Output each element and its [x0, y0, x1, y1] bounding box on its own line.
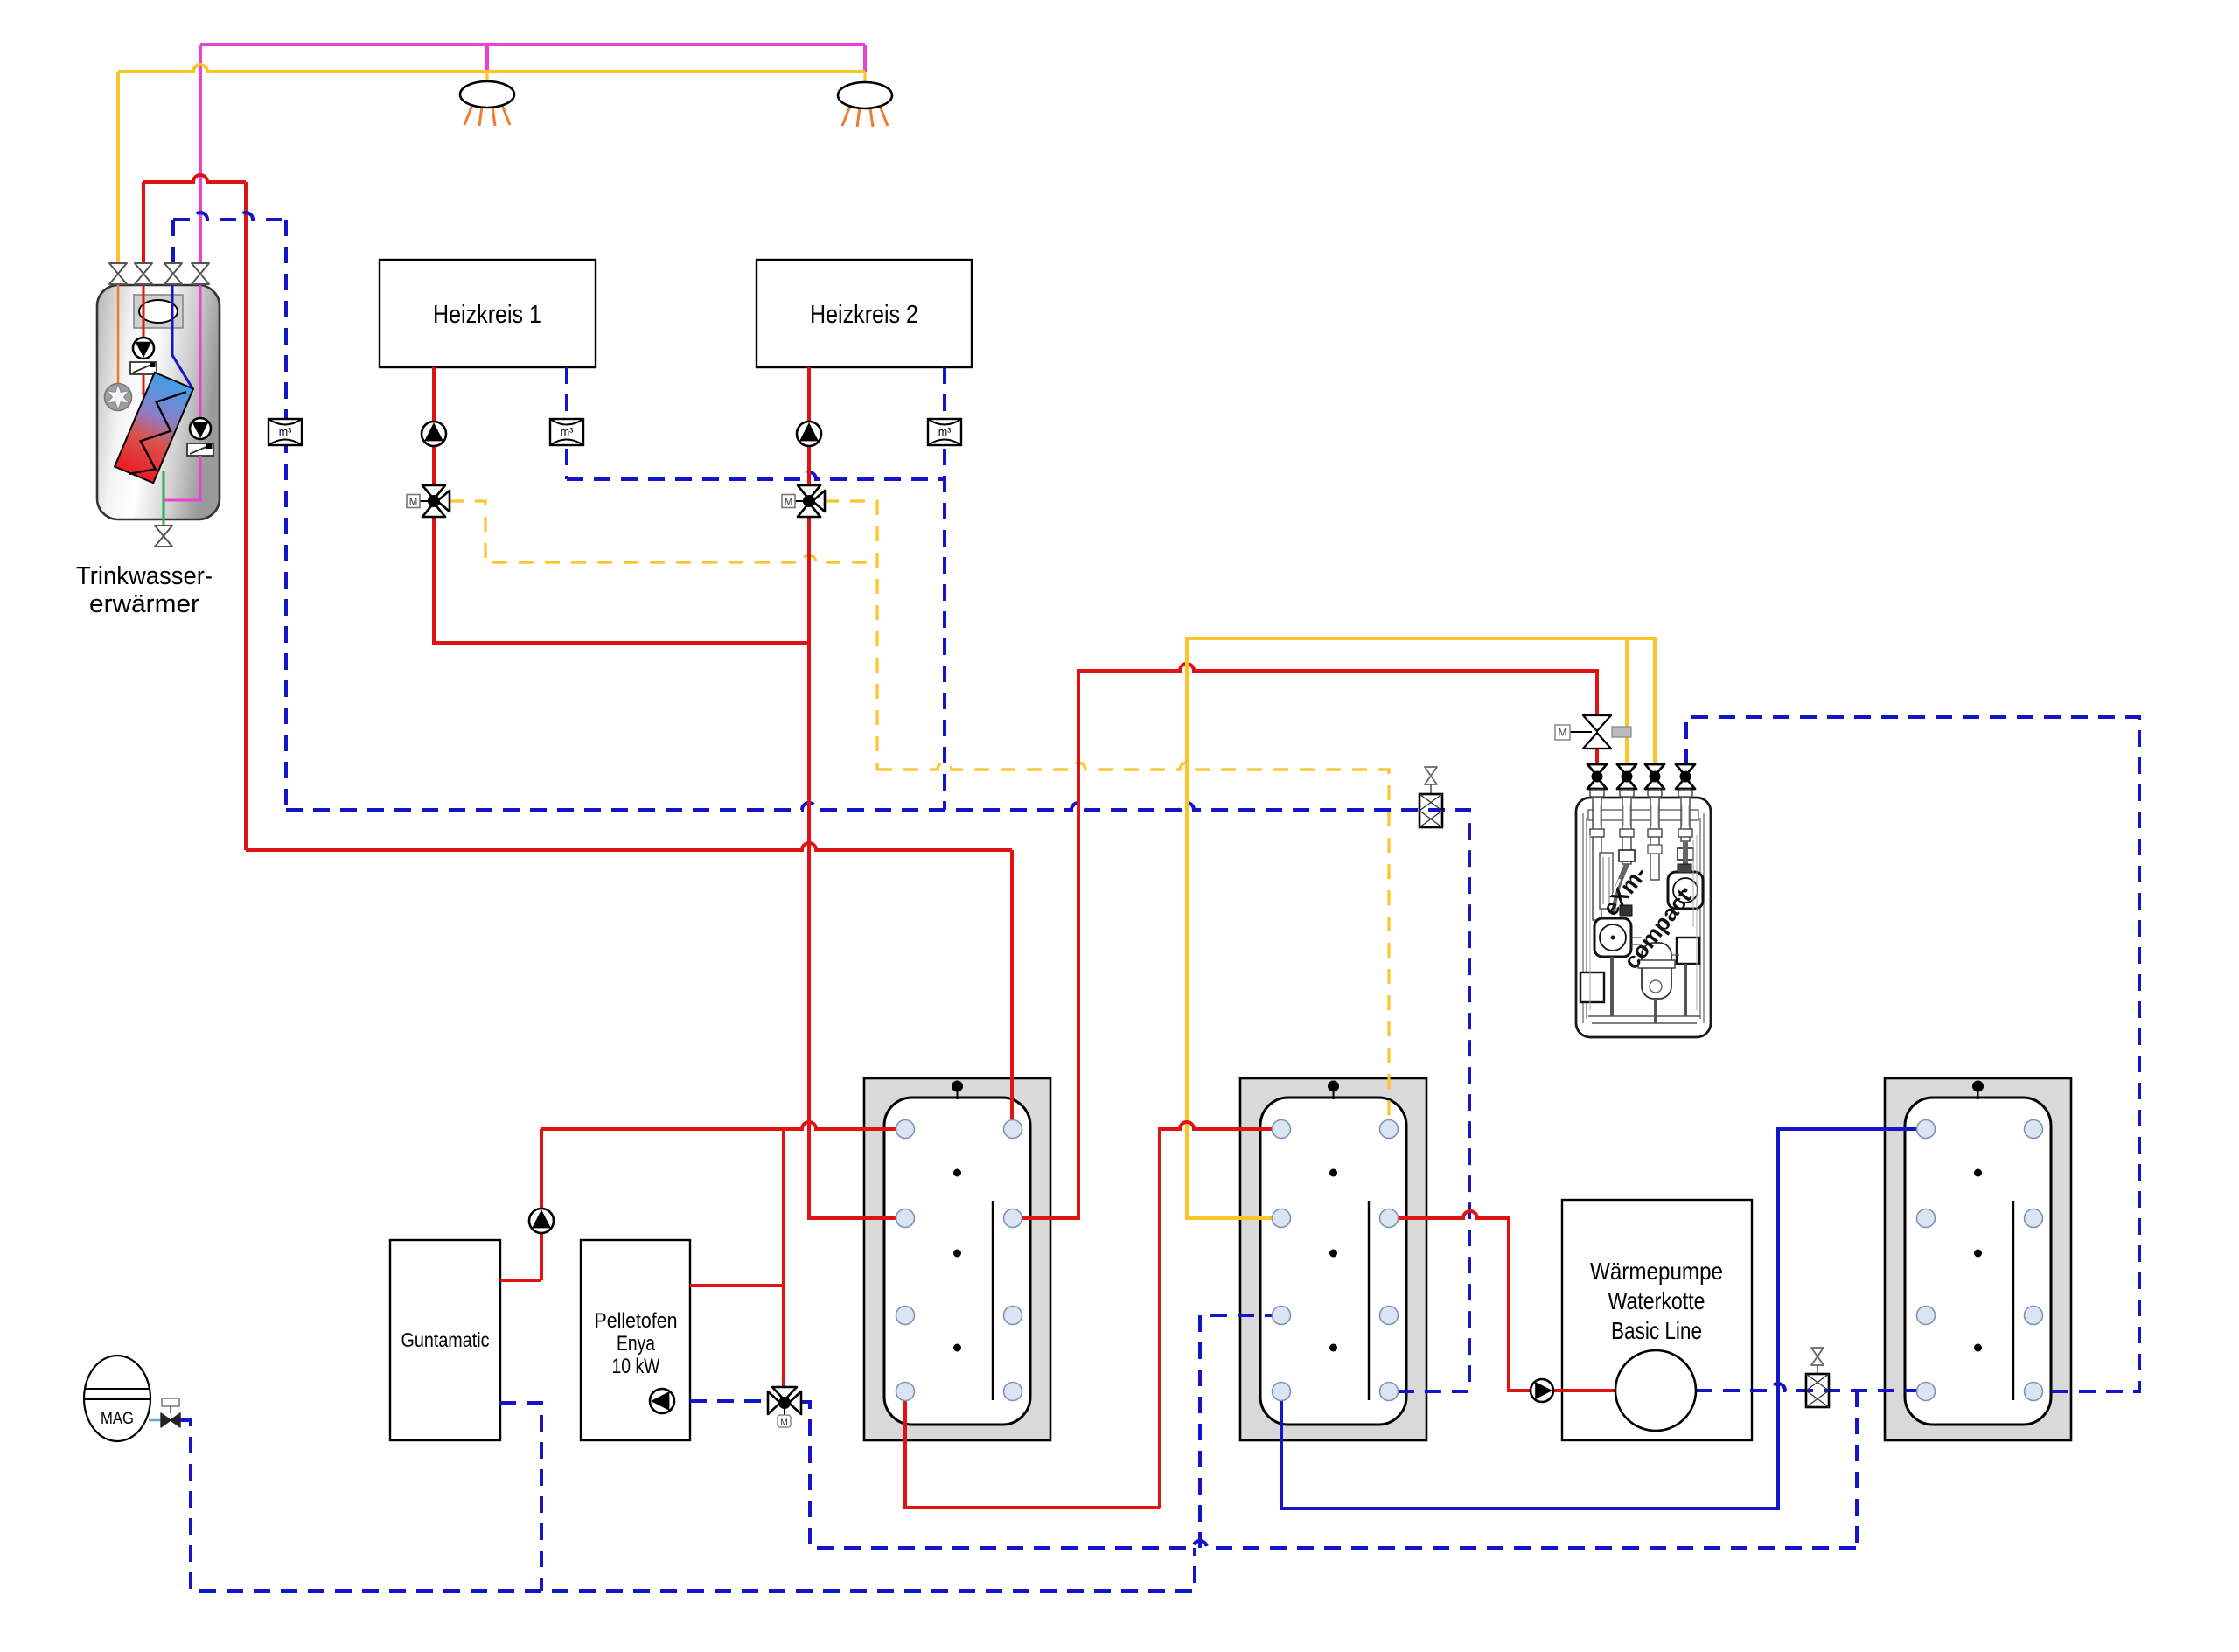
wire blue dashed exm return	[1686, 717, 2139, 1391]
TW green drain line	[163, 471, 165, 526]
MAG cap valve	[161, 1413, 180, 1427]
svg-text:erwärmer: erwärmer	[89, 590, 199, 618]
TW check valve 1	[130, 362, 157, 374]
svg-text:m³: m³	[561, 426, 574, 438]
mixing valve HK2	[798, 485, 825, 517]
eXm compact solar station	[1576, 798, 1711, 1037]
dirt filter 2	[1806, 1374, 1829, 1407]
wire red main supply vertical	[244, 182, 248, 850]
svg-text:m³: m³	[279, 426, 292, 438]
wire yellow drop to TW valve	[116, 72, 120, 263]
TW solar star symbol	[105, 384, 132, 411]
TW blue internal	[172, 282, 192, 388]
svg-text:Enya: Enya	[617, 1332, 656, 1356]
wire yellow dashed control header	[877, 763, 1389, 1129]
WP compressor circle	[1615, 1350, 1696, 1431]
Waermepumpe box	[1562, 1200, 1752, 1440]
TW top valve 1	[109, 263, 127, 284]
wire red TW drop to valve	[142, 182, 145, 263]
wire red HK1 supply	[434, 367, 809, 643]
Heizkreis 2 box	[757, 260, 972, 367]
vent valve filter1	[1425, 767, 1437, 784]
pump HK1	[422, 422, 446, 446]
wire red tank1 to solar	[1013, 664, 1597, 1218]
wire yellow solar branch valve2	[1625, 638, 1629, 766]
wire magenta drop lamp2	[863, 45, 867, 72]
wire blue dashed TW header	[173, 213, 286, 220]
svg-text:Wärmepumpe: Wärmepumpe	[1590, 1258, 1723, 1285]
wire red boiler riser	[540, 1129, 543, 1280]
wire red supply to tank1 horizontal	[246, 843, 1012, 850]
wire red pelletofen out	[690, 1284, 784, 1287]
exm isolation valve 2	[1617, 764, 1636, 789]
wire yellow stub lamp1	[485, 72, 488, 82]
wire blue solid tank2 to tank3	[1281, 1129, 1925, 1509]
MAG expansion vessel	[84, 1356, 150, 1441]
wire red pelletofen branch	[782, 1129, 785, 1386]
svg-text:Trinkwasser-: Trinkwasser-	[76, 562, 213, 590]
tank2 ports	[1273, 1120, 1291, 1139]
Guntamatic boiler box	[390, 1240, 500, 1440]
Heizkreis 1 box	[380, 260, 596, 367]
wire blue dashed WP out	[1696, 1384, 1925, 1391]
svg-text:10 kW: 10 kW	[612, 1355, 660, 1378]
TW top valve 2	[135, 263, 152, 284]
wire blue dashed HK1 return	[565, 367, 568, 479]
buffer tank 3 body	[1885, 1078, 2071, 1440]
TW top valve 4	[192, 263, 209, 284]
exm isolation valve 3	[1645, 764, 1664, 789]
TW top valve 3	[164, 263, 182, 284]
pump pelletofen	[650, 1389, 674, 1413]
wire yellow dashed HK2 control	[824, 501, 877, 770]
wire yellow header	[118, 65, 865, 72]
flow meter HK2	[928, 419, 961, 445]
wire red boiler header	[541, 1122, 905, 1129]
wire magenta header	[200, 43, 865, 46]
TW orange sensor line	[117, 282, 120, 386]
vent valve filter2	[1811, 1348, 1824, 1365]
TW magenta internal	[199, 282, 202, 418]
Trinkwasser tank body	[97, 285, 220, 519]
wire magenta drop lamp1	[485, 45, 489, 72]
flow meter TW return	[269, 419, 302, 445]
svg-text:M: M	[780, 1418, 788, 1428]
svg-text:M: M	[1559, 727, 1567, 739]
TW check valve 2	[187, 443, 213, 456]
heat exchanger coil	[114, 373, 192, 484]
collector lamp 1	[464, 105, 472, 125]
wire red TW header	[143, 175, 246, 182]
svg-text:M: M	[409, 498, 418, 508]
wire yellow stub lamp2	[863, 72, 866, 83]
TW magenta to bottom	[164, 456, 200, 500]
TW red to exchanger	[143, 374, 145, 395]
svg-text:MAG: MAG	[101, 1409, 134, 1428]
tank3 ports	[1917, 1120, 1936, 1139]
wire red drop to tank1 top-right port	[1010, 850, 1014, 1129]
wire blue dashed MAG line	[180, 1420, 1195, 1591]
wire magenta drop to TW tank	[199, 45, 202, 263]
MAG connection pipe	[149, 1419, 161, 1422]
wire red guntamatic out	[500, 1279, 541, 1282]
TW red internal drop	[143, 282, 145, 338]
wire red mvalve to exm valve1	[1595, 749, 1599, 766]
buffer tank 1 body	[864, 1078, 1050, 1440]
wire blue dashed HK return header	[567, 472, 945, 479]
pump HK2	[797, 422, 821, 446]
wire red tank2 to WP	[1389, 1211, 1615, 1391]
exm isolation valve 1	[1587, 764, 1607, 789]
pump boiler	[529, 1209, 554, 1233]
wire yellow solar flow	[1187, 638, 1655, 1218]
wire blue dashed TW drop to valve	[171, 220, 175, 263]
pelletofen 3way valve	[768, 1387, 801, 1414]
wire blue dashed main return vertical	[284, 220, 288, 810]
Pelletofen Enya box	[581, 1240, 690, 1440]
wire blue dashed WP line drop	[1855, 1391, 1859, 1548]
collector lamp 2	[842, 106, 850, 126]
wire blue dashed pelletofen valve out	[800, 1402, 1857, 1548]
buffer tank 2 body	[1240, 1078, 1426, 1440]
svg-text:Waterkotte: Waterkotte	[1608, 1287, 1705, 1314]
svg-text:Basic Line: Basic Line	[1611, 1317, 1702, 1344]
svg-text:Pelletofen: Pelletofen	[595, 1309, 678, 1333]
pump WP	[1531, 1379, 1553, 1402]
svg-text:M: M	[785, 498, 793, 508]
svg-text:Guntamatic: Guntamatic	[401, 1328, 490, 1351]
wire blue dashed HK2 return	[943, 367, 946, 810]
flow meter HK1	[550, 419, 583, 445]
svg-text:Heizkreis 1: Heizkreis 1	[433, 301, 541, 329]
wire blue dashed tank2 port3	[1200, 1315, 1281, 1548]
dirt filter 1	[1419, 794, 1442, 827]
wire blue dashed main return horizontal	[286, 803, 1469, 1391]
svg-text:m³: m³	[938, 426, 952, 438]
exm isolation valve 4	[1676, 764, 1695, 789]
svg-text:Heizkreis 2: Heizkreis 2	[810, 301, 918, 329]
TW burner housing	[134, 295, 183, 328]
wire yellow dashed HK1 control	[449, 501, 877, 562]
TW pump 1	[133, 338, 154, 359]
tank1 ports	[896, 1120, 915, 1139]
exm motor valve	[1583, 715, 1611, 749]
wire red HK2 supply	[809, 367, 905, 1218]
wire blue dashed guntamatic return	[499, 1403, 541, 1591]
TW pump 2	[190, 418, 211, 439]
TW bottom drain valve	[155, 526, 172, 547]
wire red tank1 bottom out	[905, 1391, 1160, 1508]
wire red tank2 feed	[1160, 1122, 1281, 1508]
wire blue dashed pelletofen in	[690, 1399, 768, 1403]
mixing valve HK1	[422, 485, 450, 517]
